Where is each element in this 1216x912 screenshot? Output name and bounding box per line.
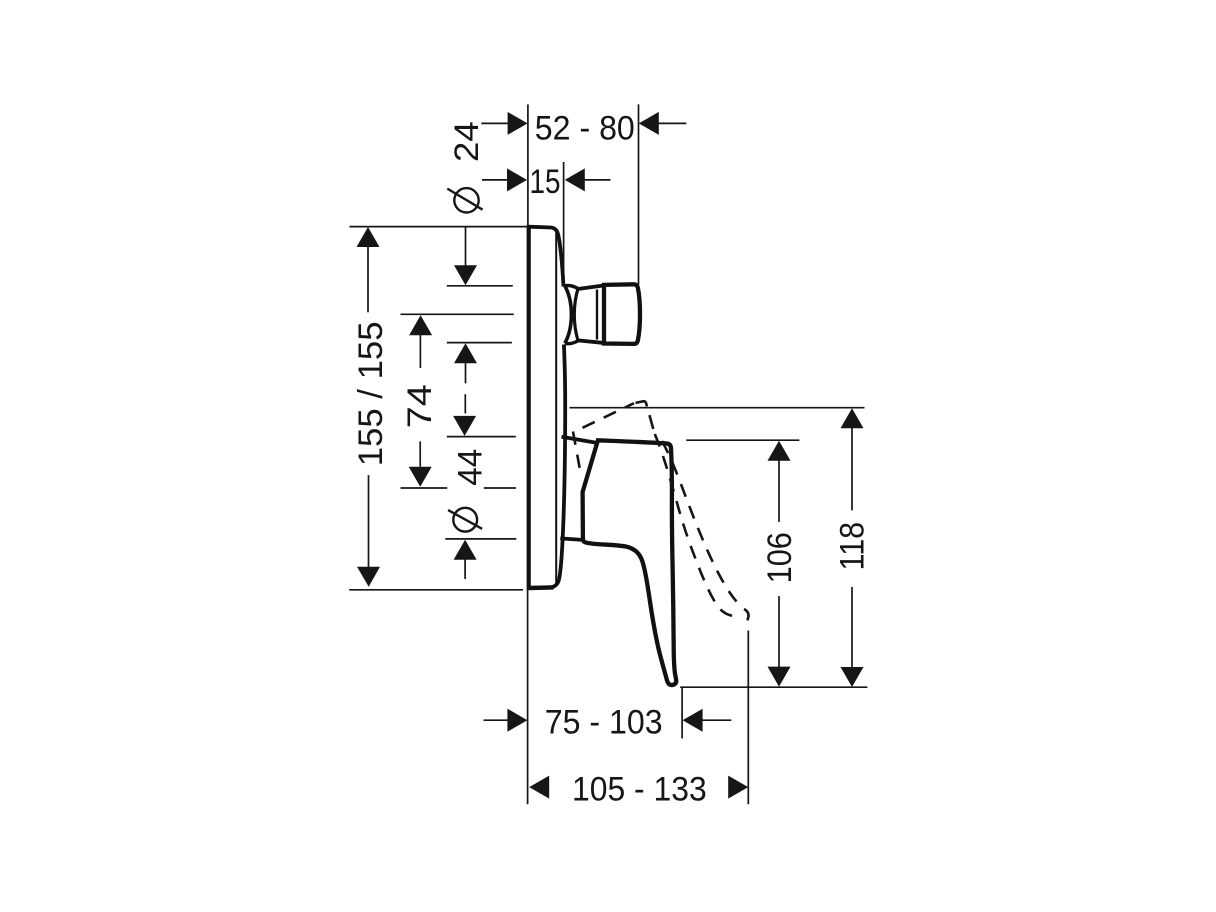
extension line: solid lever top y=440.2 bbox=[686, 439, 799, 441]
15 left arrowhead bbox=[507, 168, 527, 191]
52-80 right arrow tail bbox=[659, 122, 687, 124]
Ø44 upper arrowhead (pointing down) bbox=[453, 416, 476, 436]
svg-text:15: 15 bbox=[530, 163, 561, 201]
svg-text:75 - 103: 75 - 103 bbox=[545, 703, 663, 741]
75-103 right arrowhead bbox=[683, 709, 703, 732]
dashed lever outer edge bbox=[662, 441, 737, 602]
extension line: plate bottom y=589.8 bbox=[349, 589, 523, 591]
118 lower stem bbox=[851, 587, 853, 668]
52-80 right arrowhead bbox=[639, 112, 659, 135]
extension line: lever tip x=682.1 bbox=[681, 687, 683, 738]
52-80 left arrowhead bbox=[508, 112, 528, 135]
74 lower stem bbox=[419, 441, 421, 466]
wall plate bottom edge bbox=[529, 585, 554, 590]
svg-text:44: 44 bbox=[452, 449, 490, 486]
74 upper stem bbox=[419, 334, 421, 368]
Ø24/Ø44 shared stem lower part bbox=[464, 394, 466, 413]
15 right arrowhead bbox=[565, 168, 585, 191]
extension line: wall plane lower x=527.6 bbox=[527, 589, 529, 805]
106 upper stem bbox=[778, 460, 780, 522]
Ø24 upper arrowhead (pointing down) bbox=[454, 265, 477, 285]
155/155 upper stem bbox=[367, 246, 369, 312]
Ø44 lower arrow stem bbox=[464, 559, 466, 579]
svg-text:74: 74 bbox=[401, 384, 439, 428]
118 lower arrowhead (pointing down) bbox=[841, 667, 864, 687]
dashed lever (raised position) top edge bbox=[583, 403, 635, 428]
106 upper arrowhead (pointing up) bbox=[768, 441, 791, 461]
extension line: plate dome front x=563.6 bbox=[563, 162, 565, 286]
extension line: lever bottom y=687.2 bbox=[680, 686, 867, 688]
155/155 lower stem bbox=[368, 475, 370, 567]
105-133 right arrowhead (pointing right) bbox=[728, 776, 748, 799]
106 lower arrowhead (pointing down) bbox=[768, 667, 791, 687]
extension line: knob front x=638.5 bbox=[638, 104, 640, 284]
Ø24 upper arrow stem bbox=[465, 227, 467, 266]
svg-text:106: 106 bbox=[761, 532, 799, 583]
extension line: plate top y=226.6 bbox=[350, 226, 528, 228]
knob sleeve (flared escutcheon bush) bbox=[565, 285, 578, 343]
lever handle outline bbox=[583, 440, 677, 685]
Ø24/Ø44 shared stem upper part bbox=[465, 362, 467, 383]
Ø44 diameter slash bbox=[448, 510, 482, 529]
118 upper stem bbox=[851, 427, 853, 510]
knob head bbox=[604, 284, 640, 344]
extension line: lever pivot y=488 right part bbox=[484, 487, 516, 489]
lever boss top edge bbox=[562, 437, 596, 443]
extension line: hub top y=436.6 bbox=[447, 436, 516, 438]
15 right arrow tail bbox=[585, 179, 611, 181]
Ø24 lower arrowhead (pointing up) bbox=[454, 343, 477, 363]
106 lower stem bbox=[778, 596, 780, 667]
wall plate front face inner line bbox=[552, 232, 557, 588]
75-103 left arrowhead bbox=[507, 709, 527, 732]
dashed lever inner edge bbox=[655, 434, 734, 616]
svg-text:118: 118 bbox=[834, 522, 872, 571]
extension line: knob centre y=314.3 bbox=[401, 313, 514, 315]
extension line: dashed lever top y=407.7 bbox=[570, 407, 865, 409]
74 lower arrowhead (pointing down) bbox=[409, 467, 432, 487]
155/155 lower arrowhead bbox=[357, 567, 380, 587]
extension line: hub bottom y=538.9 bbox=[445, 538, 516, 540]
Ø44 lower arrowhead (pointing up) bbox=[454, 540, 477, 560]
extension line: dashed-lever tip x=748.3 bbox=[747, 631, 749, 805]
svg-text:155 / 155: 155 / 155 bbox=[352, 322, 390, 467]
Ø44 diameter circle bbox=[453, 508, 477, 532]
75-103 left arrow tail bbox=[484, 719, 509, 721]
svg-text:105 - 133: 105 - 133 bbox=[572, 770, 707, 808]
extension line: lever pivot y=488 left part bbox=[401, 487, 448, 489]
dashed lever tip arc bbox=[744, 609, 748, 620]
wall plate outline lower part bbox=[529, 345, 566, 589]
lever boss bottom edge bbox=[560, 538, 584, 540]
118 upper arrowhead (pointing up) bbox=[841, 408, 864, 428]
extension line: knob bottom y=342.6 bbox=[447, 342, 512, 344]
52-80 left arrow tail bbox=[481, 122, 508, 124]
svg-text:24: 24 bbox=[448, 121, 486, 162]
Ø24 diameter slash bbox=[447, 189, 482, 210]
155/155 upper arrowhead bbox=[357, 227, 380, 247]
wall plate back edge bbox=[527, 225, 531, 589]
wall plate (escutcheon) outline upper part bbox=[529, 227, 564, 287]
dashed lever short edge near boss bbox=[573, 432, 580, 469]
knob stem bbox=[578, 286, 603, 343]
extension line: knob top y=285.8 bbox=[447, 285, 513, 287]
105-133 left arrowhead (pointing left) bbox=[529, 776, 549, 799]
75-103 right arrow tail bbox=[702, 719, 731, 721]
74 upper arrowhead (pointing up) bbox=[409, 315, 432, 335]
svg-text:52 - 80: 52 - 80 bbox=[535, 109, 635, 147]
15 left arrow tail bbox=[482, 179, 508, 181]
Ø24 diameter circle bbox=[454, 188, 478, 212]
extension line: wall plane (left of 52-80, 15, 75-103, 105-133) x=527.9 upper bbox=[527, 104, 529, 226]
